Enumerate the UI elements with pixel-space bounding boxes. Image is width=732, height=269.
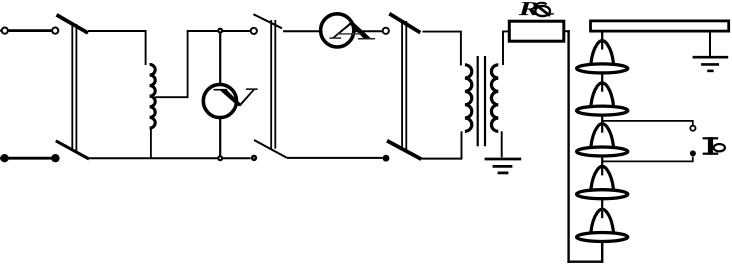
insulator disc 3 — [577, 124, 628, 156]
label resistor subscript bowl — [535, 3, 554, 16]
ground transformer line 2 — [493, 165, 513, 168]
wire secondary bottom lead — [501, 131, 503, 157]
wire top rail S3 to transformer — [423, 32, 461, 66]
terminal switch S1 top hinge — [52, 28, 58, 34]
wire HV lead bottom — [567, 261, 602, 263]
terminal gap lower sphere — [690, 150, 696, 156]
switch S3 top blade — [389, 14, 420, 33]
wire measuring tap upper — [602, 121, 693, 125]
transformer T2 core bar 1 — [477, 56, 479, 146]
wire top rail to regulator — [88, 31, 146, 65]
switch S1 bottom blade — [56, 141, 89, 159]
ground transformer line 3 — [498, 171, 509, 174]
switch S2 top blade — [253, 14, 282, 28]
node junction top of voltmeter — [217, 28, 223, 34]
insulator disc 4 — [577, 166, 628, 198]
wire string link 4-5 — [601, 199, 603, 218]
switch S2 base bar 2 — [274, 20, 276, 149]
wire string link 1-2 — [601, 74, 603, 92]
terminal switch S3 top hinge — [383, 28, 389, 34]
terminal switch S2 bottom hinge — [251, 155, 257, 161]
insulator disc 5 — [577, 209, 628, 241]
wire top rail S2 to S3 — [283, 30, 383, 32]
wire string link 2-3 — [601, 116, 603, 133]
wire bottom rail S2 to S3 — [287, 157, 383, 159]
terminal switch S1 bottom hinge — [51, 154, 59, 162]
terminal bottom-left input — [0, 154, 8, 162]
switch S1 base bar 2 — [75, 24, 77, 151]
switch S2 bottom blade — [254, 140, 287, 158]
switch S1 base bar 1 — [71, 24, 73, 151]
wire string link 3-4 — [601, 157, 603, 176]
ground transformer line 1 — [485, 158, 522, 161]
wire bottom rail S3 to transformer — [421, 158, 462, 160]
label Ip letter p — [714, 144, 725, 151]
transformer T2 secondary winding — [491, 65, 498, 132]
ammeter PA circle — [321, 14, 354, 47]
insulator disc 1 — [577, 41, 628, 73]
wire resistor right lead — [564, 30, 570, 32]
wire voltmeter branch — [219, 31, 221, 158]
label Ip letter I — [703, 137, 719, 155]
voltmeter PV circle — [203, 84, 236, 117]
wire regulator bottom lead — [150, 128, 152, 159]
transformer T2 primary winding — [465, 65, 472, 132]
wire secondary top lead — [503, 31, 510, 65]
wire bottom rail left — [89, 157, 251, 159]
wire bottom input — [5, 157, 56, 160]
wire ground drop from bar — [709, 31, 711, 56]
wire regulator tap — [155, 31, 187, 97]
insulator disc 2 — [577, 83, 628, 115]
node junction bottom of voltmeter — [217, 155, 223, 161]
crossarm bar — [591, 21, 729, 31]
autotransformer T1 winding — [150, 64, 156, 128]
ground crossarm line 2 — [701, 63, 719, 66]
wire HV lead up to string — [601, 243, 603, 263]
terminal top-left input — [2, 28, 8, 34]
wire string link from bar — [601, 31, 603, 49]
resistor R box — [509, 21, 564, 41]
label R of resistor — [519, 2, 539, 15]
ammeter letter A — [330, 21, 376, 39]
switch S3 base bar 2 — [405, 21, 407, 149]
switch S2 base bar 1 — [270, 20, 272, 149]
transformer T2 core bar 2 — [484, 56, 486, 146]
ground crossarm line 1 — [693, 56, 729, 59]
switch S1 top blade — [57, 15, 89, 33]
wire measuring tap lower — [602, 157, 693, 162]
wire input stub top — [0, 30, 2, 32]
terminal switch S3 bottom hinge — [383, 155, 390, 162]
wire top rail regulator to switch S2 — [187, 30, 251, 32]
switch S3 base bar 1 — [401, 21, 403, 149]
wire HV lead down — [567, 30, 569, 263]
wire transformer primary bottom lead — [461, 131, 463, 158]
wire input stub bottom — [0, 157, 1, 159]
voltmeter letter V — [214, 88, 258, 106]
ground crossarm line 3 — [707, 70, 713, 73]
terminal gap upper sphere — [690, 126, 695, 131]
switch S3 bottom blade — [387, 141, 421, 160]
wire top input — [8, 29, 52, 32]
terminal switch S2 top hinge — [251, 28, 257, 34]
